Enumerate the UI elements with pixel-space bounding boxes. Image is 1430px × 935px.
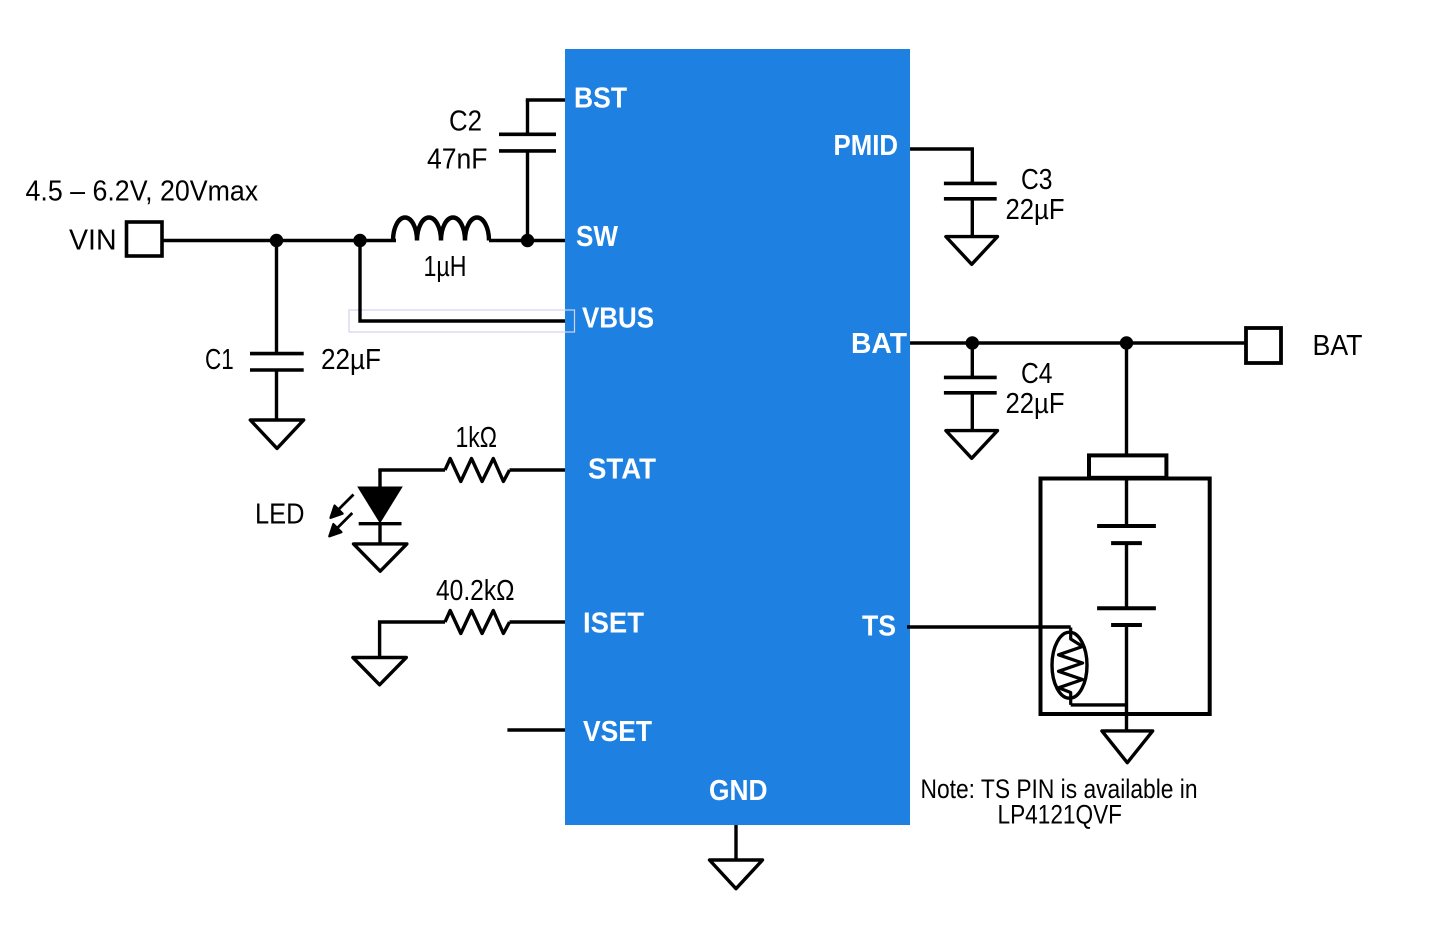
label input voltage range xyxy=(26,176,259,208)
label BAT (terminal) xyxy=(1313,330,1363,362)
terminal VIN square xyxy=(127,222,163,256)
battery pack outline xyxy=(1041,479,1210,715)
ground (GND pin) xyxy=(710,860,763,889)
ground (battery) xyxy=(1102,731,1153,763)
capacitor C3 xyxy=(944,183,997,236)
label VIN xyxy=(69,225,117,257)
svg-text:GND: GND xyxy=(709,775,768,807)
svg-text:4.5 – 6.2V, 20Vmax: 4.5 – 6.2V, 20Vmax xyxy=(26,176,259,208)
svg-text:BST: BST xyxy=(574,83,627,115)
IC U1 (charger IC body) xyxy=(565,49,910,825)
capacitor C2 xyxy=(499,100,556,241)
wire VIN to inductor xyxy=(162,239,396,242)
label 47nF xyxy=(427,144,488,176)
svg-text:40.2kΩ: 40.2kΩ xyxy=(436,575,515,607)
pin label STAT xyxy=(588,454,656,486)
svg-text:VIN: VIN xyxy=(69,225,117,257)
label C1 xyxy=(205,344,234,376)
pin label SW xyxy=(576,221,619,253)
junction node BAT/battery xyxy=(1120,336,1133,349)
svg-text:1kΩ: 1kΩ xyxy=(456,422,498,454)
terminal BAT square xyxy=(1246,328,1281,363)
pin label VBUS xyxy=(582,303,654,335)
pin label ISET xyxy=(583,608,644,640)
wire ISET left xyxy=(380,622,445,658)
battery cell 2 xyxy=(1097,543,1156,731)
svg-text:C2: C2 xyxy=(449,106,482,138)
svg-text:C3: C3 xyxy=(1021,164,1053,196)
wire inductor to SW pin xyxy=(489,239,565,242)
pin label TS xyxy=(862,611,896,643)
junction node BAT/C4 xyxy=(966,336,979,349)
wire VBUS net xyxy=(360,241,565,322)
wire BAT net xyxy=(910,341,1246,344)
label C4 xyxy=(1021,358,1053,390)
junction node VIN/C1 xyxy=(270,234,283,247)
wire PMID to C3 xyxy=(910,149,972,183)
svg-text:C4: C4 xyxy=(1021,358,1053,390)
svg-text:TS: TS xyxy=(862,611,896,643)
svg-text:22µF: 22µF xyxy=(321,344,381,376)
label LED xyxy=(255,499,305,531)
LED arrow 1 xyxy=(331,495,354,518)
svg-text:BAT: BAT xyxy=(851,328,907,360)
ground (ISET) xyxy=(353,658,406,685)
wire resistor to ISET pin xyxy=(510,620,566,623)
svg-text:LP4121QVF: LP4121QVF xyxy=(998,800,1123,830)
ground (C1) xyxy=(250,420,303,448)
wire TS to thermistor xyxy=(907,625,1071,628)
wire resistor to STAT pin xyxy=(510,468,566,471)
svg-text:BAT: BAT xyxy=(1313,330,1363,362)
ground (C4) xyxy=(946,431,998,459)
pin label PMID xyxy=(834,130,899,162)
battery pack tab xyxy=(1089,455,1166,477)
note text line 2 xyxy=(998,800,1123,830)
svg-text:C1: C1 xyxy=(205,344,234,376)
svg-text:47nF: 47nF xyxy=(427,144,488,176)
LED D1 xyxy=(359,470,402,544)
note text line 1 xyxy=(921,774,1198,804)
LED arrow 2 xyxy=(329,513,352,536)
svg-text:22µF: 22µF xyxy=(1006,388,1065,420)
thermistor RT1 xyxy=(1052,628,1127,705)
ground (C3) xyxy=(946,237,998,265)
junction node VBUS branch xyxy=(353,234,366,247)
svg-text:STAT: STAT xyxy=(588,454,656,486)
wire VSET stub xyxy=(507,728,565,731)
capacitor C1 xyxy=(250,241,304,421)
capacitor C4 xyxy=(944,343,997,431)
battery cell 1 xyxy=(1097,479,1156,544)
label 22uF (C4) xyxy=(1006,388,1065,420)
wire C2 to BST pin xyxy=(526,98,565,101)
svg-text:VSET: VSET xyxy=(583,716,652,748)
resistor R1 1k xyxy=(445,459,510,482)
label C2 xyxy=(449,106,482,138)
svg-text:PMID: PMID xyxy=(834,130,899,162)
label C3 xyxy=(1021,164,1053,196)
label 40.2k ohm xyxy=(436,575,515,607)
svg-text:SW: SW xyxy=(576,221,619,253)
ground (LED) xyxy=(354,544,407,571)
junction node SW/C2 xyxy=(521,234,534,247)
label 22uF (C1) xyxy=(321,344,381,376)
inductor L1 1uH xyxy=(393,218,489,241)
pin label BST xyxy=(574,83,627,115)
wire STAT to resistor xyxy=(378,468,445,471)
svg-text:22µF: 22µF xyxy=(1006,194,1065,226)
pin label VSET xyxy=(583,716,652,748)
label 1k ohm xyxy=(456,422,498,454)
highlight box (VBUS net artifact) xyxy=(349,310,575,332)
wire GND pin down xyxy=(734,825,737,860)
resistor R2 40.2k xyxy=(445,611,510,634)
svg-text:1µH: 1µH xyxy=(424,251,467,283)
svg-text:LED: LED xyxy=(255,499,305,531)
svg-text:VBUS: VBUS xyxy=(582,303,654,335)
label 22uF (C3) xyxy=(1006,194,1065,226)
label 1uH xyxy=(424,251,467,283)
pin label GND xyxy=(709,775,768,807)
pin label BAT xyxy=(851,328,907,360)
wire BAT to battery pack xyxy=(1125,343,1128,455)
svg-text:ISET: ISET xyxy=(583,608,644,640)
